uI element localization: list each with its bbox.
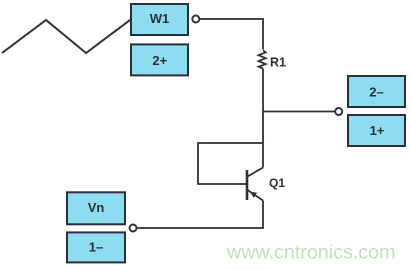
svg-text:R1: R1 bbox=[270, 56, 286, 70]
terminal box Vn bbox=[67, 192, 125, 224]
emitter arrowhead bbox=[250, 192, 257, 198]
resistor R1 bbox=[259, 50, 286, 69]
terminal box 1+ bbox=[348, 115, 405, 146]
wire junction to output node bbox=[263, 111, 335, 113]
base-collector feedback loop wire bbox=[198, 143, 263, 184]
collector lead bbox=[248, 168, 264, 177]
node Vn open circle bbox=[130, 225, 137, 232]
svg-text:1+: 1+ bbox=[370, 123, 385, 138]
node W1 open circle bbox=[192, 16, 199, 23]
waveform zigzag input line bbox=[2, 20, 130, 53]
terminal box W1 bbox=[131, 4, 188, 35]
svg-text:Q1: Q1 bbox=[269, 176, 285, 190]
svg-text:Vn: Vn bbox=[88, 200, 105, 215]
wire from W1 node to resistor top bbox=[200, 19, 263, 50]
terminal box 2- bbox=[348, 76, 405, 107]
svg-text:2–: 2– bbox=[369, 84, 383, 99]
svg-text:W1: W1 bbox=[150, 11, 170, 26]
transistor Q1 bbox=[247, 168, 285, 201]
wire resistor bottom to output junction bbox=[262, 69, 264, 112]
svg-text:www.cntronics.com: www.cntronics.com bbox=[226, 241, 395, 263]
terminal box 2+ bbox=[131, 44, 188, 75]
svg-text:2+: 2+ bbox=[152, 53, 167, 68]
node output open circle bbox=[335, 108, 342, 115]
terminal box 1- bbox=[67, 232, 125, 262]
base bar bbox=[246, 170, 249, 200]
wire junction down to transistor collector bbox=[262, 112, 264, 168]
emitter lead bbox=[248, 190, 264, 201]
svg-text:1–: 1– bbox=[89, 239, 103, 254]
wire emitter to bottom node bbox=[137, 201, 263, 229]
